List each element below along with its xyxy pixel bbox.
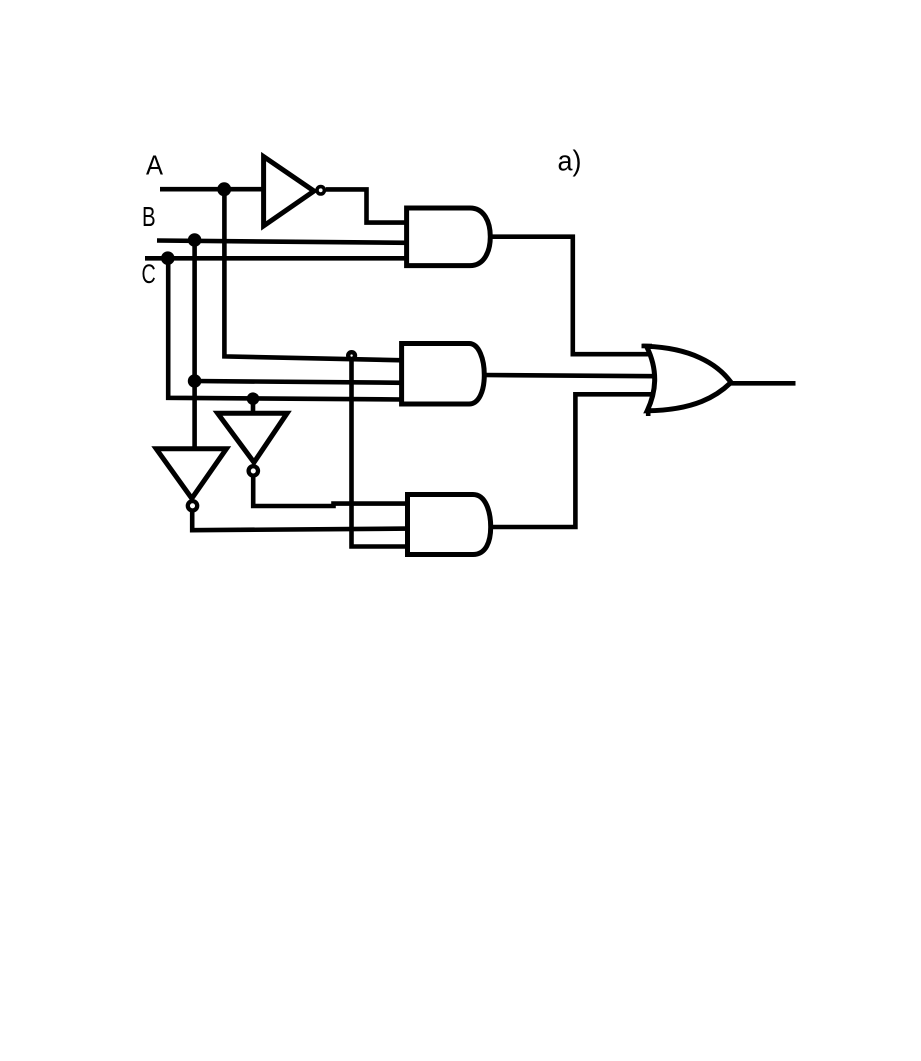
svg-text:A: A <box>146 150 163 181</box>
svg-text:C: C <box>142 259 156 289</box>
svg-text:a): a) <box>558 146 582 178</box>
svg-text:B: B <box>142 201 156 232</box>
